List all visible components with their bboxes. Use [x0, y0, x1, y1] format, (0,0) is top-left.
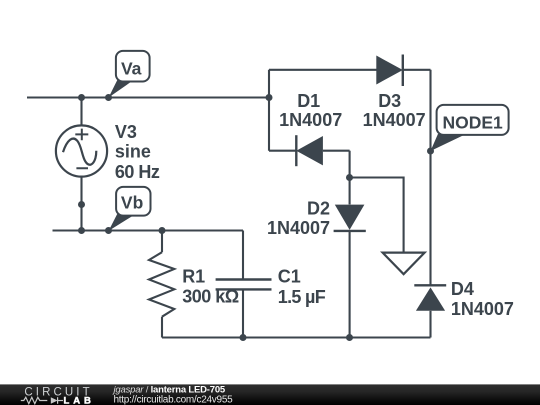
svg-text:1N4007: 1N4007 [451, 299, 514, 319]
label D2 value [267, 199, 330, 238]
junction dot V3 bottom terminal [78, 201, 85, 208]
wire V3 bottom lead [80, 172, 82, 205]
node flag NODE1 [431, 105, 509, 151]
wire D2 anode lead [349, 151, 351, 205]
label V3 value [115, 122, 160, 182]
wire top rail (node Va) [27, 96, 269, 98]
footer logo squiggle [21, 397, 63, 404]
wire R1 top lead [161, 231, 163, 253]
junction dot R1 top [159, 227, 166, 234]
junction dot Vb rail at V3 [78, 227, 85, 234]
svg-text:D3: D3 [378, 91, 401, 111]
wire bottom rail [162, 336, 431, 338]
svg-text:D1: D1 [297, 91, 320, 111]
wire V3 to Vb rail [80, 205, 82, 231]
wire ground branch [350, 178, 404, 253]
svg-text:1N4007: 1N4007 [267, 218, 330, 238]
junction dot C1 bottom [240, 334, 247, 341]
svg-text:http://circuitlab.com/c24v955: http://circuitlab.com/c24v955 [114, 395, 234, 405]
diode D4 [414, 285, 446, 311]
wire D1/D3 branch vertical [268, 70, 270, 151]
svg-text:V3: V3 [115, 122, 137, 142]
ground [383, 253, 425, 275]
wire right column upper (node NODE1) [429, 70, 431, 285]
label C1 value [278, 266, 326, 306]
label D1 value [279, 91, 342, 130]
label R1 value [182, 266, 239, 306]
wire Vb rail [53, 229, 244, 231]
wire D3 anode lead [269, 69, 377, 71]
svg-text:R1: R1 [182, 266, 205, 286]
wire D2 cathode lead [349, 231, 351, 338]
node flag Vb [109, 187, 151, 231]
svg-text:Va: Va [121, 58, 142, 78]
label D3 value [363, 91, 426, 130]
wire C1 top lead [242, 231, 244, 279]
junction dot Va attach [105, 94, 112, 101]
svg-text:1N4007: 1N4007 [279, 110, 342, 130]
junction dot top rail at V3 [78, 94, 85, 101]
junction dot D2 bottom [346, 334, 353, 341]
diode D2 [334, 205, 366, 231]
diode D3 [376, 55, 403, 87]
node flag Va [109, 51, 150, 98]
svg-text:sine: sine [115, 142, 151, 162]
wire D1 anode lead [323, 150, 350, 152]
svg-text:1N4007: 1N4007 [363, 110, 426, 130]
wire D1 cathode lead [269, 150, 296, 152]
capacitor C1 [216, 280, 272, 290]
svg-text:60 Hz: 60 Hz [115, 162, 160, 182]
wire right column lower [429, 311, 431, 338]
svg-text:D2: D2 [307, 199, 330, 219]
junction dot Vb attach [105, 227, 112, 234]
wire D3 cathode lead [403, 69, 431, 71]
wire R1 bottom lead [161, 317, 163, 338]
wire C1 bottom lead [242, 290, 244, 338]
svg-text:C1: C1 [278, 266, 301, 286]
wire V3 top lead [80, 98, 82, 131]
svg-text:LAB: LAB [64, 396, 95, 405]
label D4 value [451, 279, 514, 319]
junction dot NODE1 attach [427, 148, 434, 155]
resistor R1 [149, 252, 174, 317]
svg-text:Vb: Vb [121, 192, 143, 212]
junction dot ground branch [346, 174, 353, 181]
svg-text:1.5 µF: 1.5 µF [278, 287, 326, 307]
svg-text:D4: D4 [451, 279, 474, 299]
junction dot top rail right end [266, 94, 273, 101]
svg-text:NODE1: NODE1 [442, 112, 503, 132]
diode D1 [296, 135, 323, 166]
voltage source V3 [56, 125, 107, 176]
svg-text:300 kΩ: 300 kΩ [182, 287, 239, 307]
footer bar [0, 384, 540, 405]
